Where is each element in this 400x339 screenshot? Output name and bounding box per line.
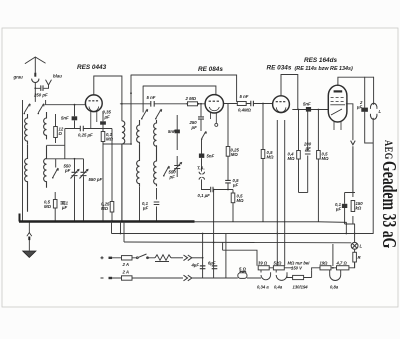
svg-text:µF: µF bbox=[335, 207, 341, 212]
svg-text:pF: pF bbox=[305, 146, 312, 151]
svg-text:Ω: Ω bbox=[58, 131, 63, 136]
svg-text:MΩ: MΩ bbox=[106, 137, 114, 142]
svg-text:5 nF: 5 nF bbox=[240, 94, 249, 99]
svg-text:AEG: AEG bbox=[382, 140, 395, 160]
svg-text:39 Ω: 39 Ω bbox=[258, 261, 268, 266]
svg-text:grau: grau bbox=[13, 75, 24, 80]
svg-text:RES 0443: RES 0443 bbox=[77, 64, 107, 71]
svg-text:5nF: 5nF bbox=[61, 116, 69, 121]
svg-text:150 V: 150 V bbox=[291, 266, 303, 271]
svg-text:MΩ: MΩ bbox=[322, 156, 330, 161]
svg-text:T.A.: T.A. bbox=[197, 166, 205, 171]
svg-text:pF: pF bbox=[191, 125, 198, 130]
svg-text:6µF: 6µF bbox=[208, 261, 216, 266]
svg-text:0,4MΩ: 0,4MΩ bbox=[238, 108, 252, 113]
svg-text:0,25 µF: 0,25 µF bbox=[78, 133, 93, 138]
svg-text:130/194: 130/194 bbox=[293, 285, 309, 290]
svg-text:MΩ: MΩ bbox=[267, 155, 275, 160]
svg-text:MΩ: MΩ bbox=[288, 156, 296, 161]
svg-text:550 pF: 550 pF bbox=[89, 177, 103, 182]
svg-text:0,8a: 0,8a bbox=[330, 285, 339, 290]
svg-text:µF: µF bbox=[104, 115, 110, 120]
svg-text:250 pF: 250 pF bbox=[33, 93, 48, 98]
svg-text:L: L bbox=[379, 109, 382, 114]
svg-text:MΩ: MΩ bbox=[101, 206, 109, 211]
svg-text:MΩ: MΩ bbox=[237, 198, 245, 203]
svg-text:pF: pF bbox=[64, 168, 71, 173]
svg-text:RE 034s: RE 034s bbox=[267, 65, 292, 72]
svg-text:5 nF: 5 nF bbox=[147, 95, 156, 100]
svg-text:5nF: 5nF bbox=[303, 102, 311, 107]
svg-text:0,34 a: 0,34 a bbox=[257, 285, 269, 290]
svg-text:52Ω: 52Ω bbox=[274, 261, 283, 266]
svg-text:µF: µF bbox=[232, 183, 238, 188]
svg-text:2 A: 2 A bbox=[122, 270, 130, 275]
svg-text:MΩ: MΩ bbox=[44, 204, 52, 209]
svg-text:4,7 Ω: 4,7 Ω bbox=[336, 261, 348, 266]
svg-text:0,4a: 0,4a bbox=[274, 285, 283, 290]
svg-text:RE 084s: RE 084s bbox=[198, 66, 223, 73]
svg-text:0,1 µF: 0,1 µF bbox=[198, 193, 211, 198]
svg-text:4µF: 4µF bbox=[191, 263, 200, 268]
svg-text:MΩ: MΩ bbox=[231, 152, 239, 157]
svg-text:5nF: 5nF bbox=[168, 129, 176, 134]
svg-text:blau: blau bbox=[53, 74, 62, 79]
svg-text:5 Ω: 5 Ω bbox=[239, 267, 247, 272]
svg-text:5nF: 5nF bbox=[207, 154, 215, 159]
svg-text:kΩ: kΩ bbox=[356, 206, 362, 211]
svg-text:2 MΩ: 2 MΩ bbox=[185, 96, 197, 101]
svg-text:Geadem 33 aG: Geadem 33 aG bbox=[378, 161, 400, 248]
svg-text:RES 164ds: RES 164ds bbox=[304, 57, 337, 64]
svg-text:19Ω: 19Ω bbox=[320, 261, 329, 266]
svg-text:µF: µF bbox=[142, 206, 148, 211]
svg-text:µF: µF bbox=[356, 105, 362, 110]
svg-text:L: L bbox=[360, 244, 363, 249]
svg-text:pF: pF bbox=[169, 175, 176, 180]
svg-text:(RE 114s bzw RE 134s): (RE 114s bzw RE 134s) bbox=[295, 66, 354, 72]
svg-text:2 A: 2 A bbox=[122, 262, 130, 267]
svg-text:µF: µF bbox=[61, 205, 67, 210]
